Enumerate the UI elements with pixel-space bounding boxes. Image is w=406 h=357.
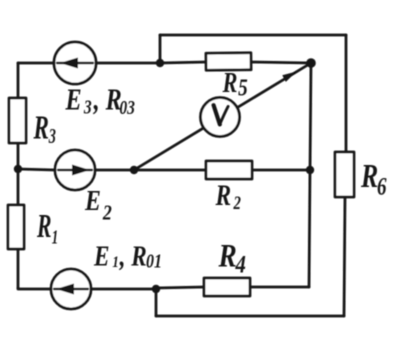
svg-text:E1, R01: E1, R01 <box>93 240 162 272</box>
resistor R6 <box>335 152 354 197</box>
wire top row right of E3 to node J1 <box>96 62 160 65</box>
wire left vertical <box>17 63 20 288</box>
node J2 <box>306 58 316 68</box>
svg-text:R4: R4 <box>218 237 246 278</box>
label R5 <box>222 68 248 101</box>
node J1 <box>156 59 164 67</box>
wire bottom row left (to E1) <box>18 288 51 289</box>
svg-text:R3: R3 <box>33 109 56 147</box>
arrowhead on diagonal at J2 <box>282 72 296 82</box>
wire right inner vertical (J2 to J3 to R4 row) <box>309 63 311 287</box>
node J4 <box>14 165 22 173</box>
svg-text:R6: R6 <box>360 157 387 201</box>
wire diagonal J5 to J2 (voltmeter branch) <box>134 63 311 170</box>
wire top rail <box>160 34 346 37</box>
source E1 (E1, R01) <box>51 269 91 309</box>
node J3 <box>306 166 314 174</box>
wire drop from node J6 to bottom rail <box>155 289 158 316</box>
svg-text:E2: E2 <box>84 185 112 225</box>
label V (voltmeter) <box>214 105 229 124</box>
svg-text:R1: R1 <box>36 208 58 248</box>
svg-text:E3, R03: E3, R03 <box>65 83 135 119</box>
label E1, R01 <box>93 240 162 272</box>
wire riser J1 to top rail <box>159 35 162 63</box>
resistor R2 <box>206 161 252 179</box>
node J6 <box>152 285 160 293</box>
label R4 <box>218 237 246 278</box>
wire E1 to node J6 <box>91 288 156 291</box>
node J5 <box>130 166 138 174</box>
source E3 (E3, R03) <box>54 42 96 84</box>
label R2 <box>215 178 242 213</box>
wire bottom rail <box>156 315 344 318</box>
resistor R3 <box>9 98 26 143</box>
wire R4 to right inner vertical <box>250 286 309 289</box>
label R1 <box>36 208 58 248</box>
wire J5 to R2 <box>134 169 206 172</box>
wire top row left (E3 row) <box>18 62 54 65</box>
resistor R5 <box>206 53 251 70</box>
label E2 <box>84 185 112 225</box>
wire J1 to R5 <box>160 62 206 63</box>
svg-text:R5: R5 <box>222 68 248 101</box>
label R3 <box>33 109 56 147</box>
svg-text:R2: R2 <box>215 178 242 213</box>
label E3, R03 <box>65 83 135 119</box>
wire J6 to R4 <box>156 287 204 288</box>
wire right outer vertical (R6 to bottom rail) <box>344 197 345 316</box>
wire E2 to node J5 <box>95 169 134 172</box>
resistor R4 <box>204 278 250 296</box>
wire R2 to node J3 <box>252 169 311 172</box>
wire middle row left (J4 to E2) <box>18 169 55 170</box>
resistor R1 <box>8 205 24 249</box>
label R6 <box>360 157 387 201</box>
source E2 <box>55 150 95 190</box>
voltmeter U1 <box>201 98 240 137</box>
wire right outer vertical (top rail to R6) <box>345 35 348 152</box>
wire R5 to node J2 <box>251 62 311 63</box>
